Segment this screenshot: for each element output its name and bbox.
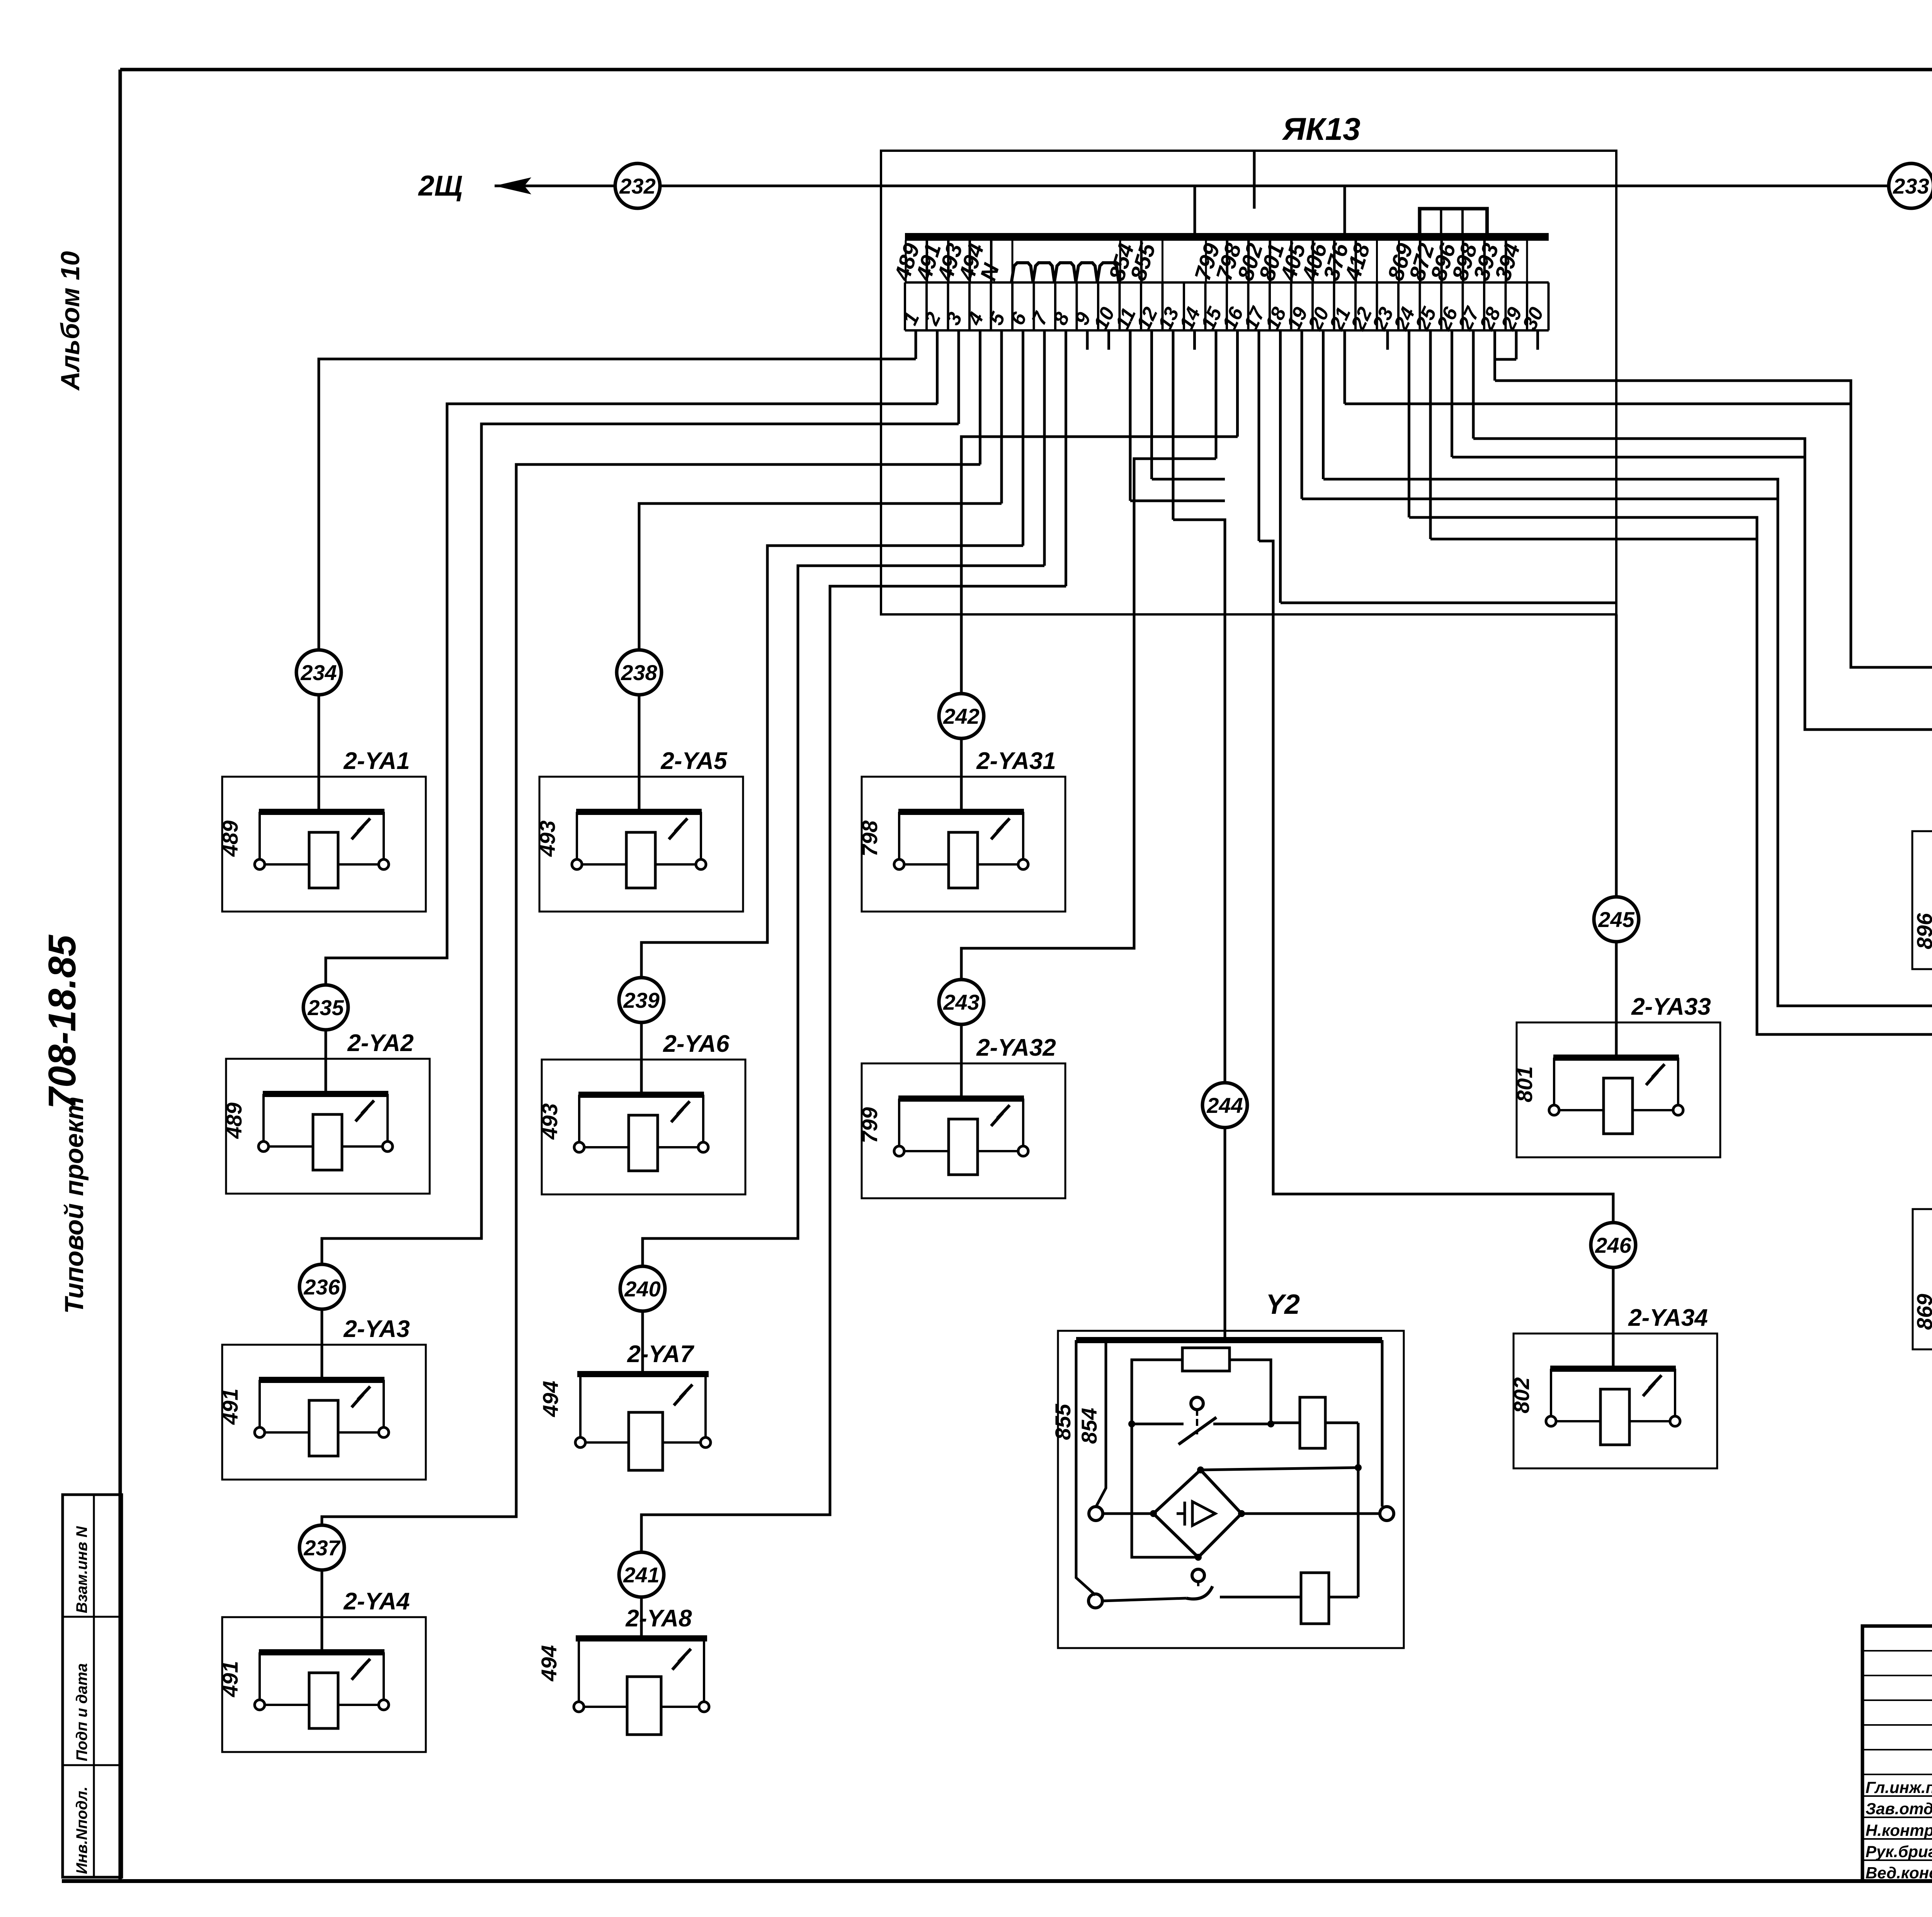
svg-text:237: 237 — [303, 1536, 341, 1560]
solenoid valve 2-YA32 outer box — [862, 1063, 1065, 1198]
2-YA2 coil wire — [269, 1145, 383, 1148]
wire 493 terminal 3 to cable 236 — [957, 330, 960, 424]
terminal strip hump covers terminals 6-10 — [1012, 263, 1119, 282]
wire drop from cable 233 to terminal 21 — [1344, 186, 1346, 233]
2-YA7 left terminal — [575, 1437, 585, 1448]
cable marker circle 245 — [1594, 897, 1639, 942]
cable marker circle 236 — [299, 1264, 344, 1309]
solenoid valve 2-YA5 outer box — [539, 777, 743, 912]
2-YA3 left terminal — [255, 1427, 265, 1437]
2-YA1 coil supply bar — [259, 809, 384, 815]
wire cable 242 to 2-YA31 — [960, 738, 963, 812]
2-YA5 left lead — [576, 812, 578, 860]
svg-text:Вед.констр: Вед.констр — [1866, 1864, 1932, 1882]
svg-text:493: 493 — [535, 820, 560, 857]
signature rows — [1866, 1777, 1932, 1882]
svg-text:801: 801 — [1512, 1066, 1537, 1102]
wire cable 232-233 horizontal run — [495, 185, 1932, 187]
solenoid valve 2-YA3 outer box — [222, 1345, 426, 1480]
cable marker circle 244 — [1202, 1083, 1247, 1128]
svg-text:ЯК13: ЯК13 — [1282, 112, 1360, 147]
wire terminal 8 to cable 241 — [1065, 330, 1067, 586]
Y2 resistor branch — [1132, 1360, 1182, 1424]
wire cable 243 to 2-YA32 — [960, 1024, 963, 1099]
left stamp column — [63, 1495, 122, 1877]
2-YA6 coil wire — [584, 1146, 698, 1148]
Y2 left lead 855 — [1076, 1340, 1095, 1595]
wire cable 234 to 2-YA1 — [318, 695, 320, 812]
wire cable 246 to 2-YA34 — [1612, 1267, 1615, 1369]
svg-text:2-YA7: 2-YA7 — [627, 1341, 694, 1368]
wire terminal 13 to cable 244 — [1172, 330, 1175, 520]
svg-text:798: 798 — [857, 820, 882, 856]
2-YA8 right lead — [703, 1640, 705, 1702]
wire 376 terminal 21 join to cable 249 — [1344, 330, 1346, 404]
cable marker circle 238 — [617, 650, 662, 695]
2-YA3 left lead — [259, 1380, 261, 1428]
solenoid valve 2-YA8 supply bar — [576, 1635, 707, 1641]
terminal strip label row — [905, 240, 1549, 282]
2-YA1 coil — [309, 832, 338, 888]
svg-text:2-YA4: 2-YA4 — [343, 1588, 410, 1615]
solenoid valve 2-YA1 outer box — [222, 777, 426, 912]
svg-text:240: 240 — [624, 1277, 660, 1301]
svg-text:Взам.инв N: Взам.инв N — [73, 1526, 90, 1613]
2-YA3 right terminal N — [379, 1427, 389, 1437]
2-YA8 left terminal — [574, 1702, 584, 1712]
2-YA34 left terminal — [1546, 1416, 1556, 1426]
2-YA6 right terminal N — [698, 1142, 708, 1152]
2-YA33 right lead — [1677, 1058, 1679, 1106]
2-YA1 right terminal N — [379, 859, 389, 869]
svg-text:493: 493 — [537, 1103, 562, 1140]
cable marker circle 233 — [1889, 163, 1932, 208]
2-YA32 coil wire — [904, 1150, 1018, 1152]
2-YA8 coil wire — [584, 1706, 699, 1708]
wire 896 terminal 26 to cable 247 — [1451, 330, 1453, 457]
2-YA6 right lead — [702, 1095, 704, 1143]
2-YA4 coil supply bar — [259, 1649, 384, 1655]
cable marker circle 235 — [303, 985, 348, 1030]
svg-text:Н.контр.: Н.контр. — [1866, 1821, 1932, 1839]
wire 394 terminal 29 join — [1515, 330, 1518, 359]
Y2 main horizontal wire — [1102, 1512, 1153, 1515]
svg-text:Инв.Nподл.: Инв.Nподл. — [73, 1786, 90, 1874]
Y2 right lead — [1381, 1340, 1384, 1507]
2-YA33 right terminal N — [1673, 1105, 1683, 1115]
svg-text:854: 854 — [1077, 1408, 1101, 1444]
svg-text:239: 239 — [623, 988, 659, 1012]
2-YA32 coil supply bar — [898, 1095, 1024, 1102]
2-YA2 coil — [313, 1114, 342, 1170]
2-YA4 coil wire — [265, 1704, 379, 1706]
svg-text:2-YA1: 2-YA1 — [343, 748, 410, 774]
terminal stubs — [1087, 330, 1538, 350]
2-YA33 left lead — [1553, 1058, 1555, 1106]
wire 872 terminal 25 join to cable 248 — [1429, 330, 1432, 539]
svg-text:Типовой проект: Типовой проект — [60, 1097, 89, 1314]
wire 855 terminal 12 join to cable 244 run — [1150, 330, 1153, 479]
svg-text:233: 233 — [1893, 174, 1929, 198]
wire 393 terminal 28 to cable 249 — [1493, 330, 1496, 381]
2-YA4 left terminal — [255, 1700, 265, 1710]
2-YA31 right lead — [1022, 812, 1024, 860]
svg-text:Зав.отд.: Зав.отд. — [1866, 1800, 1932, 1818]
svg-text:491: 491 — [218, 1388, 242, 1425]
wire 802 terminal 17 to cable 246 — [1258, 330, 1260, 541]
terminal number row 1-30 — [899, 282, 1549, 334]
Y2 upper-left terminal — [1089, 1507, 1103, 1521]
2-YA32 right terminal N — [1018, 1146, 1028, 1156]
2-YA4 coil — [309, 1673, 338, 1728]
svg-text:489: 489 — [218, 820, 242, 857]
Y2 bridge diode symbol — [1192, 1502, 1215, 1526]
Y2 lower-left terminal — [1088, 1594, 1102, 1608]
2-YA5 right lead — [700, 812, 702, 860]
cable marker circle 237 — [299, 1525, 344, 1570]
svg-text:2Щ: 2Щ — [418, 170, 463, 202]
wire terminal 7 to cable 240 — [1043, 330, 1046, 566]
Y2 node C drop — [1357, 1423, 1360, 1597]
cable marker circle 243 — [939, 980, 984, 1024]
wire 405 terminal 19 to cable 250 — [1301, 330, 1303, 499]
svg-text:491: 491 — [218, 1661, 242, 1697]
2-YA31 right terminal N — [1018, 859, 1028, 869]
wire stub terminal box top to raised boxes — [1253, 152, 1256, 209]
svg-text:234: 234 — [300, 660, 337, 685]
2-YA2 left terminal — [259, 1141, 269, 1152]
2-YA7 coil wire — [585, 1441, 701, 1444]
2-YA4 right terminal N — [379, 1700, 389, 1710]
wire cable 238 to 2-YA5 — [638, 695, 641, 812]
title block outline — [1862, 1626, 1932, 1881]
thermal switch SK2 outer box — [1912, 831, 1932, 969]
wire cable 241 to 2-YA8 — [640, 1597, 643, 1638]
wire cable 237 to 2-YA4 — [321, 1570, 323, 1652]
Y2 resistor — [1182, 1348, 1230, 1371]
svg-text:Подп и дата: Подп и дата — [73, 1663, 90, 1761]
2-YA4 right lead — [383, 1652, 385, 1700]
cable marker circle 241 — [619, 1552, 664, 1597]
cable marker circle 234 — [296, 650, 341, 695]
2-YA34 coil — [1600, 1389, 1629, 1445]
wire 491 terminal 2 to cable 235 — [936, 330, 939, 404]
2-YA2 right terminal N — [383, 1141, 393, 1152]
2-YA33 left terminal — [1549, 1105, 1559, 1115]
svg-text:242: 242 — [943, 704, 979, 728]
svg-text:2-YA8: 2-YA8 — [625, 1605, 692, 1632]
2-YA8 right terminal N — [699, 1702, 709, 1712]
wire 869 terminal 24 to cable 248 — [1408, 330, 1410, 517]
2-YA5 left terminal — [572, 859, 582, 869]
2-YA5 right terminal N — [696, 859, 706, 869]
Y2 relay coil lower — [1301, 1573, 1329, 1624]
svg-text:2-YA2: 2-YA2 — [347, 1030, 413, 1056]
2-YA31 coil wire — [904, 863, 1018, 866]
svg-text:494: 494 — [538, 1381, 563, 1417]
terminal box YAK13 outline — [881, 151, 1616, 614]
electro-hydraulic valve Y2 outer box — [1058, 1331, 1404, 1648]
2-YA1 left terminal — [255, 859, 265, 869]
svg-text:Гл.инж.пр.: Гл.инж.пр. — [1866, 1778, 1932, 1796]
temperature sensor BK2 outer box — [1913, 1209, 1932, 1349]
terminal wire labels — [889, 240, 1525, 284]
svg-text:232: 232 — [619, 174, 655, 198]
2-YA6 left lead — [578, 1095, 580, 1143]
cable marker circle 239 — [619, 978, 664, 1022]
cable marker circle 232 — [615, 163, 660, 208]
2-YA5 coil — [626, 832, 655, 888]
wire cable 235 to 2-YA2 — [325, 1030, 327, 1094]
svg-text:238: 238 — [621, 660, 657, 685]
svg-text:Альбом 10: Альбом 10 — [56, 251, 85, 391]
wire cable 239 to 2-YA6 — [640, 1022, 643, 1095]
wire 494 terminal 4 to cable 237 — [979, 330, 981, 464]
2-YA34 left lead — [1550, 1369, 1552, 1417]
2-YA7 right terminal N — [701, 1437, 711, 1448]
2-YA31 coil supply bar — [898, 809, 1024, 815]
2-YA33 coil wire — [1559, 1109, 1673, 1111]
Y2 lower switch head — [1192, 1569, 1204, 1582]
cable marker circle 240 — [620, 1266, 665, 1311]
wire cable 240 to 2-YA7 — [641, 1311, 644, 1374]
cable marker circle 246 — [1591, 1223, 1636, 1267]
Y2 right terminal — [1380, 1507, 1394, 1521]
svg-text:494: 494 — [537, 1645, 561, 1681]
solenoid valve 2-YA33 outer box — [1517, 1022, 1720, 1157]
solenoid valve 2-YA2 outer box — [226, 1059, 430, 1194]
2-YA8 left lead — [578, 1640, 580, 1702]
solenoid valve 2-YA7 supply bar — [577, 1371, 709, 1377]
wire terminal box right edge down to cable 245 — [1615, 614, 1618, 897]
2-YA8 coil — [627, 1677, 661, 1735]
2-YA3 coil — [309, 1400, 338, 1456]
2-YA32 left terminal — [894, 1146, 904, 1156]
Y2 diode bridge — [1153, 1470, 1242, 1557]
svg-text:241: 241 — [623, 1563, 659, 1587]
solenoid valve 2-YA6 outer box — [542, 1060, 745, 1194]
2-YA5 coil wire — [582, 863, 696, 866]
svg-text:2-YA31: 2-YA31 — [976, 748, 1056, 774]
wire terminal 6 to cable 239 — [1022, 330, 1024, 546]
arrow to 2Shch — [495, 177, 531, 194]
Y2 bridge top link — [1201, 1468, 1358, 1470]
Y2 bottom left link — [1132, 1424, 1198, 1557]
wire drop from cable 232 to terminal 14 — [1194, 186, 1196, 233]
2-YA2 right lead — [386, 1094, 389, 1142]
2-YA7 right lead — [704, 1376, 707, 1437]
wire cable 244 to Y2 — [1224, 1128, 1226, 1338]
svg-text:855: 855 — [1051, 1403, 1075, 1440]
2-YA6 coil supply bar — [578, 1092, 704, 1098]
svg-text:2-YA34: 2-YA34 — [1628, 1305, 1708, 1331]
svg-text:244: 244 — [1206, 1093, 1243, 1118]
2-YA7 left lead — [579, 1376, 582, 1437]
2-YA6 coil — [629, 1115, 658, 1171]
2-YA5 coil supply bar — [576, 809, 702, 815]
terminal strip bold top bar — [905, 233, 1549, 241]
2-YA33 coil supply bar — [1553, 1055, 1679, 1061]
2-YA32 coil — [949, 1119, 978, 1175]
2-YA2 coil supply bar — [263, 1091, 388, 1097]
terminal strip raised boxes over terminals 25-27 — [1420, 209, 1487, 237]
svg-text:Y2: Y2 — [1266, 1289, 1300, 1320]
2-YA34 right lead — [1674, 1369, 1676, 1417]
2-YA7 coil — [629, 1412, 663, 1470]
svg-text:246: 246 — [1595, 1233, 1631, 1257]
wire 406 terminal 20 join to cable 250 — [1322, 330, 1325, 479]
svg-text:235: 235 — [307, 995, 344, 1020]
solenoid valve 2-YA34 outer box — [1514, 1334, 1717, 1468]
svg-text:243: 243 — [943, 990, 979, 1014]
Y2 upper switch dashed stem — [1196, 1419, 1198, 1434]
solenoid valve 2-YA31 outer box — [862, 777, 1065, 912]
svg-text:869: 869 — [1912, 1294, 1932, 1330]
solenoid valve 2-YA4 outer box — [222, 1617, 426, 1752]
2-YA31 coil — [949, 832, 978, 888]
2-YA3 coil supply bar — [259, 1377, 384, 1383]
Y2 relay coil upper — [1271, 1422, 1300, 1424]
2-YA31 left terminal — [894, 859, 904, 869]
svg-text:896: 896 — [1912, 913, 1932, 949]
Y2 upper switch head — [1191, 1397, 1203, 1410]
svg-text:708-18.85: 708-18.85 — [41, 934, 84, 1109]
wire N terminal 5 to cable 238 — [1000, 330, 1003, 503]
svg-text:236: 236 — [303, 1275, 340, 1299]
Y2 supply bar — [1076, 1337, 1382, 1343]
svg-text:802: 802 — [1509, 1377, 1534, 1413]
2-YA34 coil wire — [1556, 1420, 1670, 1422]
cable marker circle 242 — [939, 694, 984, 738]
2-YA3 coil wire — [265, 1431, 379, 1434]
2-YA32 right lead — [1022, 1099, 1024, 1146]
wire 798 terminal 16 to cable 242 — [1236, 330, 1239, 437]
svg-text:245: 245 — [1598, 907, 1634, 932]
wire 489 terminal 1 to cable 234 — [915, 330, 917, 359]
svg-text:799: 799 — [857, 1107, 882, 1143]
wire 898 terminal 27 join to cable 247 — [1472, 330, 1475, 439]
wire cable 236 to 2-YA3 — [321, 1309, 323, 1380]
2-YA34 right terminal N — [1670, 1416, 1680, 1426]
2-YA32 left lead — [898, 1099, 900, 1146]
Y2 lower contact — [1102, 1598, 1186, 1601]
wire 799 terminal 15 to cable 243 — [1215, 330, 1218, 459]
svg-text:Рук.бриг.: Рук.бриг. — [1866, 1842, 1932, 1861]
2-YA6 left terminal — [574, 1142, 584, 1152]
svg-text:2-YA33: 2-YA33 — [1631, 993, 1711, 1020]
2-YA33 coil — [1604, 1078, 1633, 1134]
2-YA34 coil supply bar — [1550, 1366, 1676, 1372]
2-YA31 left lead — [898, 812, 900, 860]
wire 801 terminal 18 to cable 245 — [1279, 330, 1282, 603]
2-YA1 right lead — [383, 812, 385, 860]
2-YA2 left lead — [262, 1094, 265, 1142]
svg-text:2-YA6: 2-YA6 — [663, 1031, 730, 1057]
svg-text:2-YA5: 2-YA5 — [660, 748, 728, 774]
2-YA4 left lead — [259, 1652, 261, 1700]
svg-text:2-YA3: 2-YA3 — [343, 1316, 410, 1342]
Y2 left lead 854 — [1096, 1340, 1106, 1507]
wire 854 terminal 11 join to cable 244 run — [1129, 330, 1132, 501]
2-YA1 coil wire — [265, 863, 379, 866]
svg-text:2-YA32: 2-YA32 — [976, 1034, 1056, 1061]
2-YA3 right lead — [383, 1380, 385, 1428]
title block signature table — [1862, 1626, 1932, 1881]
2-YA1 left lead — [259, 812, 261, 860]
svg-text:489: 489 — [222, 1102, 246, 1139]
wire cable 245 to 2-YA33 — [1615, 942, 1618, 1058]
Y2 upper contact — [1132, 1423, 1184, 1425]
